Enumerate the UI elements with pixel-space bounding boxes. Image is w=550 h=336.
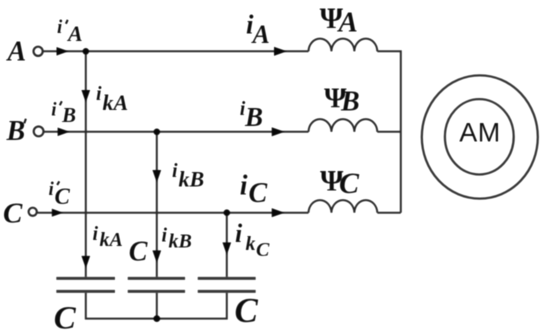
svg-text:C: C	[3, 198, 23, 230]
svg-text:i: i	[96, 83, 102, 105]
svg-text:i: i	[51, 100, 57, 121]
svg-text:C: C	[129, 237, 148, 268]
svg-text:B: B	[6, 116, 26, 147]
svg-text:C: C	[235, 291, 259, 330]
svg-text:k: k	[246, 233, 256, 255]
svg-text:i: i	[235, 219, 243, 248]
svg-text:A: A	[251, 20, 270, 49]
svg-text:kA: kA	[103, 90, 129, 115]
svg-text:A: A	[337, 7, 358, 39]
svg-text:AM: AM	[459, 118, 501, 148]
svg-text:C: C	[339, 167, 360, 200]
svg-text:i: i	[172, 160, 178, 182]
svg-text:i: i	[162, 225, 168, 247]
svg-text:i: i	[240, 171, 248, 202]
svg-text:C: C	[54, 300, 77, 336]
svg-text:kB: kB	[179, 167, 205, 192]
svg-text:B: B	[340, 87, 360, 118]
svg-text:C: C	[249, 178, 268, 209]
svg-text:i: i	[93, 223, 99, 245]
svg-text:B: B	[244, 102, 263, 132]
svg-text:C: C	[256, 239, 270, 261]
svg-text:B: B	[61, 103, 76, 127]
svg-text:A: A	[66, 21, 83, 46]
svg-text:A: A	[6, 37, 27, 68]
svg-text:kB: kB	[169, 231, 192, 253]
svg-text:C: C	[55, 184, 71, 209]
svg-text:kA: kA	[100, 229, 123, 251]
svg-text:i: i	[57, 17, 63, 38]
